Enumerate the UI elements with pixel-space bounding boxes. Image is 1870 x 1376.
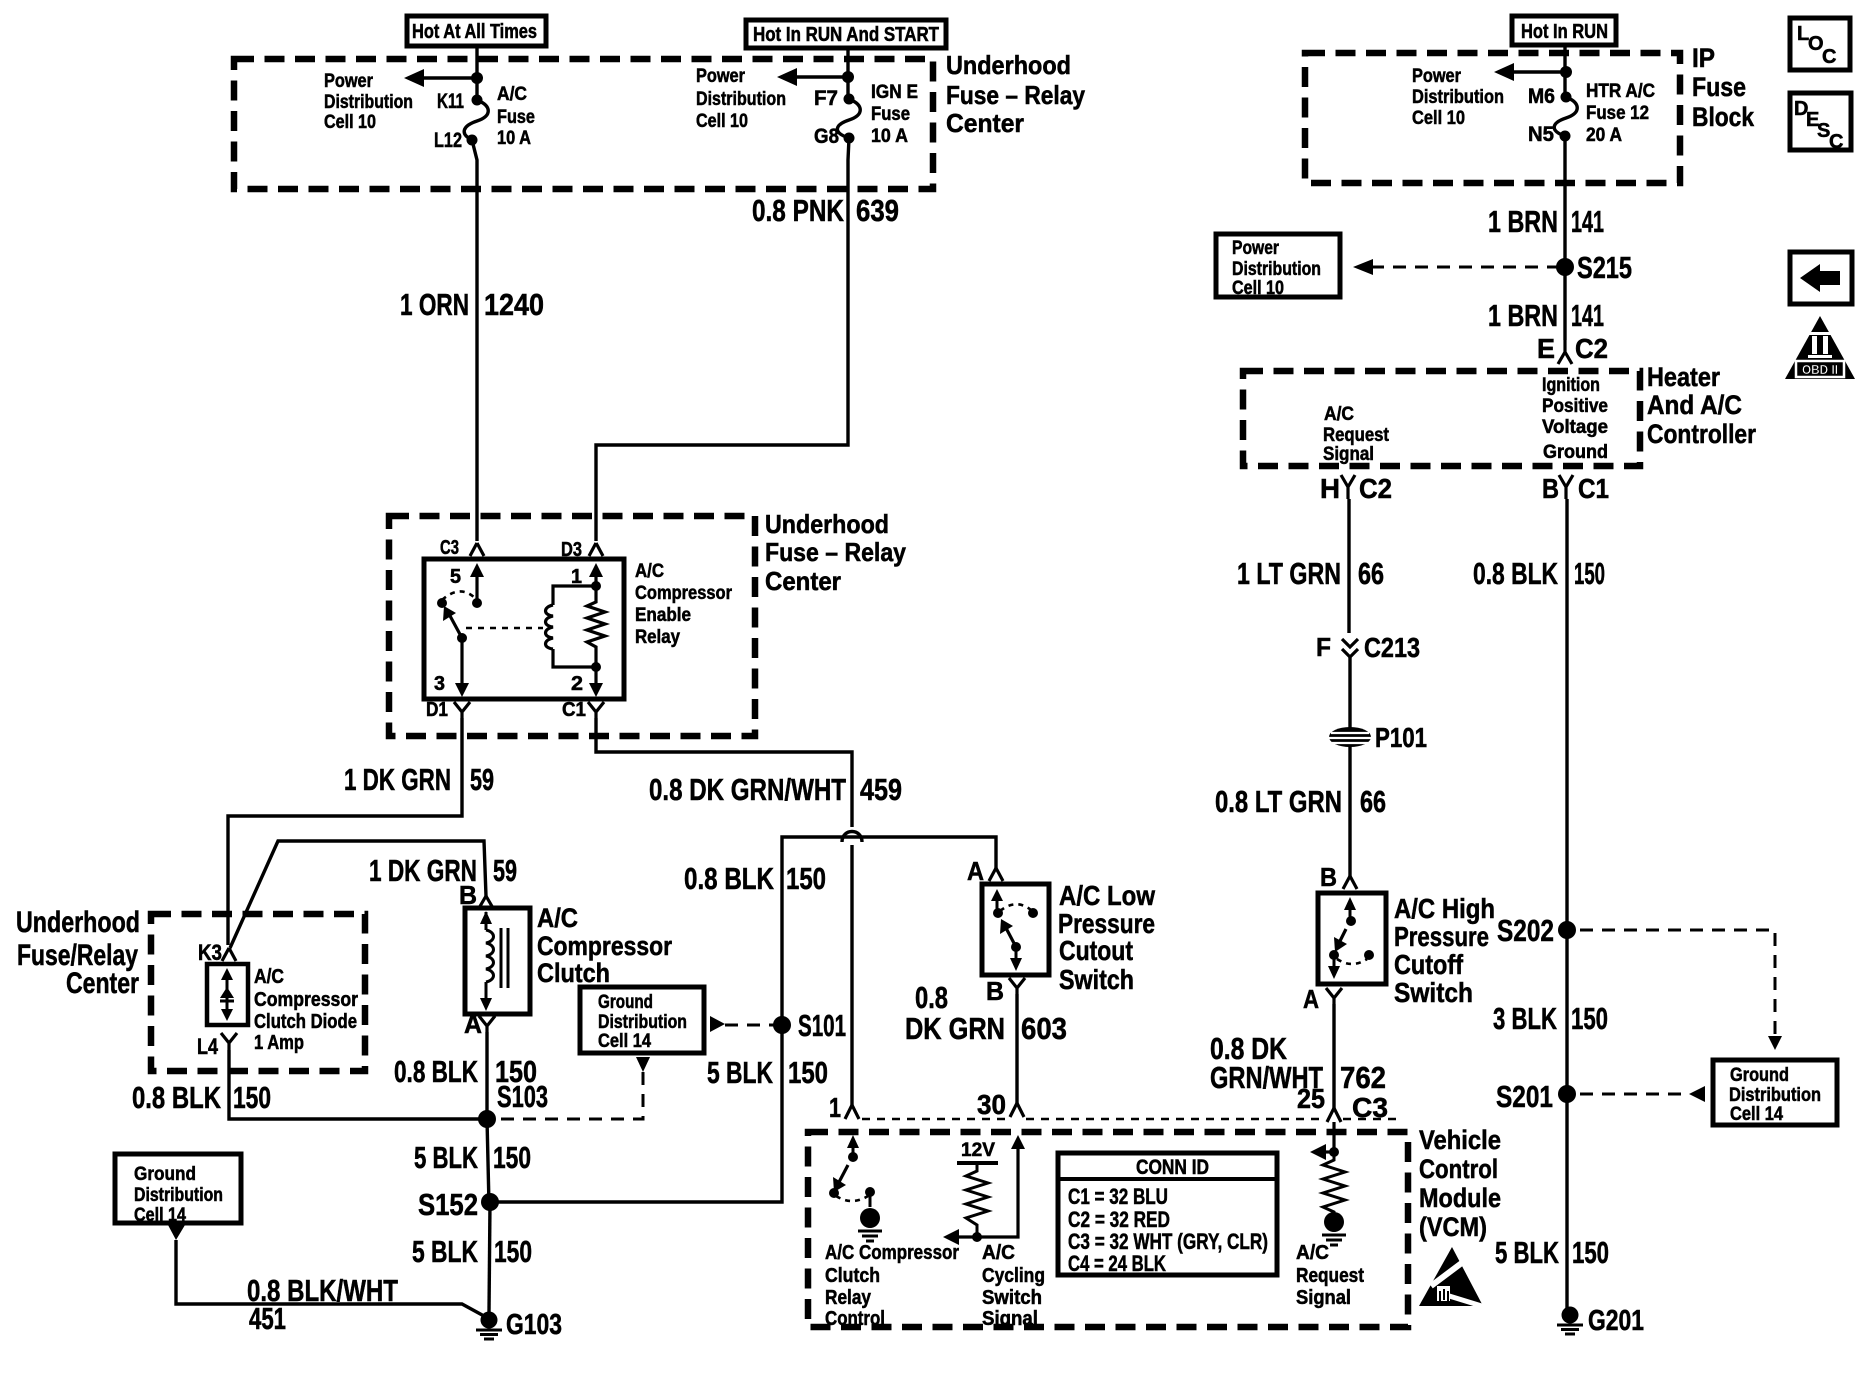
pin function label Ignition Positive Voltage / Ground (controller): [1542, 375, 1608, 463]
wire D1 down-left-down to K3: [228, 718, 462, 945]
svg-text:Center: Center: [66, 967, 139, 1000]
reference box Ground Distribution Cell 14 (mid): [580, 987, 704, 1053]
wire label 1 BRN 141 (below S215): [1488, 298, 1604, 333]
svg-text:150: 150: [1574, 556, 1605, 591]
svg-text:Clutch: Clutch: [825, 1265, 880, 1287]
svg-text:C3: C3: [1352, 1092, 1388, 1123]
svg-text:5 BLK: 5 BLK: [414, 1140, 478, 1175]
wire S215 down to connector E C2: [1563, 267, 1566, 340]
svg-text:Underhood: Underhood: [946, 50, 1071, 80]
reference label Power Distribution Cell 10 (IP fuse): [1412, 66, 1504, 129]
pin 1 arrow (coil +): [571, 563, 603, 588]
connector chevron D1 (relay): [426, 699, 470, 721]
svg-text:OBD II: OBD II: [1802, 362, 1838, 377]
wire ground branch from S101 riser to low pressure switch A: [782, 837, 996, 1025]
svg-text:Distribution: Distribution: [1232, 259, 1321, 280]
svg-text:3 BLK: 3 BLK: [1493, 1001, 1557, 1036]
svg-text:59: 59: [493, 853, 517, 888]
svg-text:Distribution: Distribution: [324, 92, 413, 113]
wire P101 down to high pressure switch B: [1348, 745, 1351, 876]
component label Underhood Fuse-Relay Center (relay): [765, 509, 906, 596]
svg-text:1 ORN: 1 ORN: [400, 287, 469, 322]
clutch coil with arrows and plates: [480, 911, 508, 1011]
node junction at IGN E fuse feed: [842, 71, 854, 83]
wire 0.8 BLK/WHT 451 from ground distribution to G103: [176, 1240, 484, 1316]
component label A/C Compressor Clutch: [537, 903, 672, 988]
svg-text:0.8 DK GRN/WHT: 0.8 DK GRN/WHT: [649, 772, 846, 807]
VCM comparator arrow (cycling switch signal): [943, 1229, 982, 1245]
op box A/C Compressor Clutch Diode: [207, 964, 248, 1025]
wire G8 down, left, down to relay D3: [596, 138, 849, 541]
relay coil branch node top: [591, 581, 601, 591]
pin 5 arrow (relay common contact): [450, 563, 484, 601]
wire label 5 BLK 150 (below S152): [412, 1234, 532, 1269]
icon box back arrow: [1790, 252, 1852, 304]
svg-text:G103: G103: [506, 1309, 562, 1341]
svg-text:Signal: Signal: [982, 1308, 1038, 1330]
pin 2 arrow down: [571, 667, 603, 697]
svg-text:IP: IP: [1692, 43, 1715, 73]
relay coil (inductor): [546, 586, 597, 667]
svg-text:Fuse – Relay: Fuse – Relay: [765, 537, 906, 567]
wire label 3 BLK 150: [1493, 1001, 1608, 1036]
svg-text:C1: C1: [562, 699, 586, 721]
wire L12 down to relay C3: [472, 140, 477, 541]
svg-text:Cutout: Cutout: [1059, 935, 1133, 966]
reference label Power Distribution Cell 10 (middle fuse): [696, 66, 786, 132]
connector chevron A (high pressure switch): [1303, 984, 1342, 1014]
svg-text:Voltage: Voltage: [1542, 417, 1608, 438]
svg-text:2: 2: [571, 673, 583, 695]
connector chevron pin 25 (VCM): [1327, 1108, 1341, 1122]
component label Underhood Fuse/Relay Center (bottom left): [16, 906, 140, 1000]
wire S101 down to S152 level: [490, 1025, 782, 1202]
node junction at HTR A/C fuse feed: [1560, 66, 1572, 78]
ground G103: [476, 1309, 562, 1341]
svg-text:C1: C1: [1578, 473, 1609, 504]
svg-text:Switch: Switch: [1059, 964, 1134, 995]
svg-text:3: 3: [434, 673, 445, 695]
svg-text:B: B: [1542, 473, 1559, 504]
svg-text:F7: F7: [814, 87, 838, 110]
svg-text:C: C: [1829, 131, 1843, 153]
grommet P101: [1329, 722, 1427, 753]
svg-text:S152: S152: [418, 1187, 478, 1222]
svg-text:762: 762: [1340, 1060, 1386, 1095]
connector E C2: [1537, 333, 1608, 364]
svg-text:And A/C: And A/C: [1647, 390, 1742, 420]
component label Heater And A/C Controller: [1647, 362, 1756, 449]
connector chevron pin 1 (VCM): [845, 1105, 859, 1119]
wire label 0.8 DK GRN/WHT 762: [1210, 1031, 1386, 1095]
svg-text:S215: S215: [1577, 250, 1632, 285]
svg-text:HTR A/C: HTR A/C: [1586, 81, 1655, 102]
svg-text:A: A: [1303, 984, 1319, 1014]
pin 3 arrow down: [434, 638, 469, 697]
svg-text:A/C High: A/C High: [1394, 893, 1495, 924]
svg-text:Cell 14: Cell 14: [1730, 1104, 1783, 1125]
svg-text:1: 1: [829, 1092, 841, 1123]
svg-text:A/C: A/C: [254, 966, 284, 988]
svg-text:Distribution: Distribution: [1412, 87, 1504, 108]
arrow from Ground Distribution box down: [168, 1225, 185, 1240]
svg-text:C: C: [1822, 46, 1836, 68]
svg-text:5 BLK: 5 BLK: [412, 1234, 478, 1269]
svg-text:Cell 10: Cell 10: [1232, 278, 1284, 299]
arrow to Power Distribution Cell 10 (left fuse): [404, 69, 477, 87]
svg-text:A/C: A/C: [1296, 1242, 1329, 1264]
connector chevron A (low pressure switch): [967, 856, 1003, 886]
svg-text:B: B: [986, 976, 1004, 1006]
value label HTR A/C Fuse 12 20 A: [1586, 81, 1655, 146]
svg-text:Distribution: Distribution: [696, 89, 786, 110]
svg-text:IGN E: IGN E: [871, 82, 918, 103]
VCM internal ground (clutch relay control): [858, 1208, 882, 1241]
wire label 0.8 BLK 150 (clutch ground): [394, 1054, 537, 1089]
svg-text:Heater: Heater: [1647, 362, 1720, 392]
svg-text:Switch: Switch: [982, 1287, 1042, 1309]
wire label 5 BLK 150 (S101 branch): [707, 1055, 828, 1090]
connector chevron A (clutch): [464, 1009, 495, 1039]
reference box Power Distribution Cell 10 (at S215): [1216, 234, 1340, 299]
wire C1 down and right to hop: [596, 718, 852, 1105]
wire H C2 down to connector C213: [1347, 499, 1350, 633]
svg-text:Distribution: Distribution: [1729, 1085, 1821, 1106]
svg-text:Ground: Ground: [1730, 1065, 1789, 1086]
svg-text:P101: P101: [1375, 722, 1427, 753]
svg-text:Signal: Signal: [1323, 444, 1374, 465]
svg-text:Request: Request: [1323, 425, 1390, 446]
svg-text:66: 66: [1360, 784, 1386, 819]
svg-text:S101: S101: [798, 1008, 846, 1043]
svg-text:L4: L4: [197, 1034, 219, 1059]
svg-text:0.8 BLK: 0.8 BLK: [1473, 556, 1558, 591]
svg-text:0.8 LT GRN: 0.8 LT GRN: [1215, 784, 1342, 819]
svg-text:S201: S201: [1496, 1079, 1553, 1114]
label box Hot In RUN And START: [746, 20, 946, 48]
op box A/C Compressor Enable Relay: [424, 559, 624, 699]
svg-text:Underhood: Underhood: [765, 509, 889, 539]
svg-text:CONN ID: CONN ID: [1136, 1156, 1209, 1179]
svg-text:Fuse: Fuse: [1692, 72, 1746, 102]
component label IP Fuse Block: [1692, 43, 1755, 132]
dashed box Underhood Fuse-Relay Center (top): [234, 59, 933, 189]
svg-text:Request: Request: [1296, 1265, 1364, 1287]
svg-text:Compressor: Compressor: [635, 583, 733, 604]
svg-text:Hot In RUN: Hot In RUN: [1521, 21, 1608, 43]
diode symbol with bidirectional arrows: [220, 968, 234, 1021]
svg-text:Power: Power: [324, 71, 374, 92]
value label A/C Fuse 10 A: [497, 84, 535, 149]
wire S152 down to G103: [489, 1202, 490, 1313]
fuse HTR A/C Fuse 12 20 A (M6/N5): [1554, 92, 1577, 142]
svg-text:S103: S103: [497, 1079, 548, 1114]
svg-text:C2: C2: [1575, 333, 1608, 364]
svg-text:Cell 10: Cell 10: [1412, 108, 1465, 129]
svg-text:Block: Block: [1692, 102, 1755, 132]
VCM pull-up resistor: [966, 1163, 988, 1237]
connector chevron B (high pressure switch): [1320, 862, 1357, 892]
wire label 0.8 LT GRN 66: [1215, 784, 1386, 819]
svg-text:150: 150: [233, 1080, 271, 1115]
op box A/C Compressor Clutch: [465, 908, 530, 1014]
VCM 12V rail bar: [957, 1161, 998, 1165]
wire from Hot In RUN down to fuse M6: [1563, 45, 1566, 97]
svg-text:Cutoff: Cutoff: [1394, 949, 1464, 980]
wire label 0.8 BLK 150 (controller ground): [1473, 556, 1605, 591]
component label A/C Compressor Enable Relay: [635, 561, 733, 648]
svg-text:0.8 BLK: 0.8 BLK: [684, 861, 774, 896]
svg-text:1 BRN: 1 BRN: [1488, 204, 1558, 239]
svg-text:G201: G201: [1588, 1305, 1644, 1337]
node S101: [773, 1008, 846, 1043]
wire label 1 ORN 1240: [400, 287, 544, 322]
wire label 0.8 BLK 150 (diode ground): [132, 1080, 271, 1115]
connector chevron B (clutch): [459, 880, 493, 910]
wire N5 down to S215: [1563, 136, 1566, 267]
node S201: [1496, 1079, 1576, 1114]
wire C213 down to P101: [1348, 657, 1351, 729]
svg-text:Relay: Relay: [635, 627, 680, 648]
VCM A/C request input node and arrow: [1310, 1122, 1339, 1160]
svg-text:(VCM): (VCM): [1419, 1212, 1487, 1242]
svg-text:A/C: A/C: [1324, 404, 1354, 425]
reference label Power Distribution Cell 10 (left fuse): [324, 71, 413, 133]
wire cycling switch signal up to pin 30: [977, 1135, 1025, 1237]
pin function label A/C Request Signal (VCM): [1296, 1242, 1364, 1309]
wire label 1 BRN 141 (above S215): [1488, 204, 1604, 239]
svg-text:A/C Compressor: A/C Compressor: [825, 1242, 959, 1264]
dashed box Vehicle Control Module (VCM): [808, 1132, 1408, 1327]
svg-text:59: 59: [470, 762, 494, 797]
svg-text:Cycling: Cycling: [982, 1265, 1045, 1287]
relay armature dot: [457, 633, 467, 643]
svg-text:150: 150: [1571, 1001, 1608, 1036]
svg-text:Center: Center: [946, 108, 1024, 138]
svg-text:Cell 14: Cell 14: [598, 1031, 651, 1052]
svg-text:150: 150: [493, 1140, 531, 1175]
svg-text:C213: C213: [1364, 632, 1420, 663]
svg-text:Ground: Ground: [1543, 442, 1608, 463]
dashed box Heater And A/C Controller: [1243, 371, 1640, 466]
svg-text:Fuse: Fuse: [871, 104, 910, 125]
svg-text:Module: Module: [1419, 1183, 1501, 1213]
svg-text:A/C: A/C: [537, 903, 578, 933]
svg-text:12V: 12V: [961, 1140, 995, 1161]
svg-text:E: E: [1537, 333, 1555, 364]
connector H C2: [1320, 473, 1392, 504]
wire S103 down to S152: [487, 1119, 489, 1205]
wire clutch A down to S103: [485, 1032, 488, 1119]
label box Hot In RUN: [1512, 16, 1616, 45]
svg-text:K11: K11: [437, 90, 464, 113]
wire label 0.8 DK GRN/WHT 459: [649, 772, 902, 807]
pin function label A/C Compressor Clutch Relay Control: [825, 1242, 959, 1330]
svg-text:Hot At All Times: Hot At All Times: [412, 21, 537, 43]
svg-text:Power: Power: [1232, 238, 1279, 259]
svg-text:Distribution: Distribution: [598, 1012, 687, 1033]
ground G201: [1557, 1305, 1644, 1337]
node S215: [1556, 250, 1632, 285]
op box A/C Low Pressure Cutout Switch: [982, 884, 1049, 975]
svg-text:F: F: [1316, 632, 1331, 662]
arrow to Power Distribution Cell 10 (IP fuse): [1494, 63, 1566, 81]
dashed reference wire S215 to Power Distribution: [1353, 259, 1558, 275]
svg-text:Controller: Controller: [1647, 419, 1756, 449]
relay switch dashed travel arc: [442, 591, 475, 600]
dashed box IP Fuse Block: [1305, 53, 1680, 183]
svg-text:GRN/WHT: GRN/WHT: [1210, 1060, 1323, 1095]
svg-text:0.8 PNK: 0.8 PNK: [752, 193, 844, 228]
wire label 0.8 BLK/WHT 451: [247, 1273, 398, 1336]
svg-text:A/C: A/C: [982, 1242, 1015, 1264]
arrow to Power Distribution Cell 10 (middle fuse): [777, 68, 848, 86]
svg-text:30: 30: [977, 1089, 1006, 1120]
svg-text:141: 141: [1571, 298, 1604, 333]
svg-text:Ground: Ground: [134, 1164, 196, 1185]
svg-text:Clutch Diode: Clutch Diode: [254, 1011, 357, 1033]
svg-text:66: 66: [1358, 556, 1384, 591]
value label IGN E Fuse 10 A: [871, 82, 918, 147]
svg-text:Control: Control: [1419, 1154, 1498, 1184]
svg-text:A/C: A/C: [635, 561, 664, 582]
component label A/C Low Pressure Cutout Switch: [1058, 880, 1155, 995]
svg-text:1 LT GRN: 1 LT GRN: [1237, 556, 1341, 591]
wire high pressure A down to VCM pin 25: [1332, 1004, 1335, 1108]
svg-text:5 BLK: 5 BLK: [1495, 1235, 1559, 1270]
connector B C1: [1542, 473, 1609, 504]
node S152: [418, 1187, 499, 1222]
svg-text:C1 = 32 BLU: C1 = 32 BLU: [1068, 1184, 1168, 1209]
svg-text:Positive: Positive: [1542, 396, 1608, 417]
wire label 0.8 PNK 639: [752, 193, 899, 228]
fuse A/C Fuse 10 A (K11/L12): [464, 95, 488, 146]
relay resistor (parallel with coil): [587, 586, 605, 667]
svg-text:Hot In RUN And START: Hot In RUN And START: [753, 24, 939, 46]
svg-text:Pressure: Pressure: [1394, 921, 1489, 952]
svg-text:150: 150: [1572, 1235, 1609, 1270]
svg-text:H: H: [1320, 473, 1340, 504]
svg-text:Ignition: Ignition: [1542, 375, 1600, 396]
component label A/C Compressor Clutch Diode 1 Amp: [254, 966, 358, 1054]
svg-text:L12: L12: [434, 129, 462, 152]
svg-text:S202: S202: [1497, 913, 1554, 948]
svg-text:Distribution: Distribution: [134, 1185, 223, 1206]
dashed reference wire Ground Distribution to S101: [710, 1016, 776, 1032]
svg-text:K3: K3: [198, 940, 222, 965]
svg-text:20 A: 20 A: [1586, 125, 1622, 146]
svg-text:C3: C3: [440, 537, 459, 559]
dashed reference wire S201 to Ground Distribution (right): [1580, 1086, 1705, 1102]
svg-text:150: 150: [786, 861, 826, 896]
svg-text:Cell 10: Cell 10: [324, 112, 376, 133]
connector chevron C1 (relay): [562, 699, 604, 721]
svg-text:150: 150: [494, 1234, 532, 1269]
relay switch pivot dot: [437, 598, 447, 608]
icon OBD II triangle: [1785, 316, 1855, 379]
svg-text:Cell 10: Cell 10: [696, 111, 748, 132]
svg-text:Ground: Ground: [598, 992, 653, 1013]
pin function label A/C Cycling Switch Signal: [982, 1242, 1045, 1330]
svg-text:D1: D1: [426, 699, 448, 721]
svg-text:1 Amp: 1 Amp: [254, 1032, 304, 1054]
svg-text:Fuse – Relay: Fuse – Relay: [946, 80, 1085, 110]
svg-text:Vehicle: Vehicle: [1419, 1125, 1501, 1155]
svg-text:5: 5: [450, 566, 461, 588]
icon box DESC: [1790, 93, 1851, 153]
svg-text:A: A: [464, 1009, 482, 1039]
svg-text:Fuse: Fuse: [497, 107, 535, 128]
connector chevron C3 (relay): [440, 537, 484, 559]
component label A/C High Pressure Cutoff Switch: [1394, 893, 1495, 1008]
svg-text:10 A: 10 A: [871, 126, 908, 147]
high pressure switch contacts: [1328, 897, 1374, 979]
component label Underhood Fuse-Relay Center (top): [946, 50, 1085, 138]
low pressure switch contacts: [991, 889, 1038, 971]
connector chevron L4: [197, 1033, 237, 1059]
svg-text:639: 639: [856, 193, 899, 228]
wire label 5 BLK 150 (below S103): [414, 1140, 531, 1175]
svg-text:5 BLK: 5 BLK: [707, 1055, 773, 1090]
wire label 1 DK GRN 59 (clutch B): [369, 853, 517, 888]
connector F C213 (double chevron): [1316, 632, 1420, 663]
svg-text:Power: Power: [696, 66, 746, 87]
svg-text:C2: C2: [1359, 473, 1392, 504]
connector chevron K3: [198, 940, 236, 965]
reference box Ground Distribution Cell 14 (right): [1713, 1060, 1837, 1125]
svg-text:DK GRN: DK GRN: [905, 1011, 1005, 1046]
op box A/C High Pressure Cutoff Switch: [1318, 893, 1386, 984]
svg-text:10 A: 10 A: [497, 128, 531, 149]
svg-text:N5: N5: [1528, 123, 1554, 146]
svg-text:Signal: Signal: [1296, 1287, 1351, 1309]
connector chevron D3 (relay): [561, 539, 603, 561]
svg-text:603: 603: [1021, 1011, 1067, 1046]
dashed reference wire S202 to Ground Distribution (right): [1580, 930, 1782, 1050]
node junction at A/C fuse feed: [471, 72, 483, 84]
reference box Ground Distribution Cell 14 (bottom left): [115, 1154, 241, 1226]
wire from Hot At All Times down to fuse K11: [475, 46, 478, 97]
wire L4 down and right to S103: [229, 1050, 483, 1119]
svg-text:Enable: Enable: [635, 605, 691, 626]
svg-text:A/C: A/C: [497, 84, 527, 105]
wire label 1 LT GRN 66: [1237, 556, 1384, 591]
svg-text:Compressor: Compressor: [537, 931, 672, 961]
icon box LOC: [1790, 18, 1850, 70]
svg-text:0.8 BLK: 0.8 BLK: [132, 1080, 221, 1115]
wire low pressure B down to VCM pin 30: [1015, 994, 1018, 1103]
dashed box Underhood Fuse/Relay Center (diode): [151, 914, 365, 1071]
svg-text:M6: M6: [1528, 85, 1555, 108]
svg-text:451: 451: [249, 1301, 286, 1336]
connector chevron pin 30 (VCM): [1010, 1103, 1024, 1117]
wire label 5 BLK 150 (right column): [1495, 1235, 1609, 1270]
svg-text:G8: G8: [814, 125, 839, 148]
VCM request pull resistor: [1323, 1152, 1345, 1214]
svg-text:0.8 BLK: 0.8 BLK: [394, 1054, 478, 1089]
svg-text:Relay: Relay: [825, 1287, 872, 1309]
svg-text:Center: Center: [765, 566, 841, 596]
dashed reference wire Ground Distribution to S103: [496, 1057, 650, 1119]
VCM internal ground (request signal): [1322, 1212, 1346, 1245]
fuse IGN E Fuse 10 A (F7/G8): [837, 94, 860, 144]
wire label 1 DK GRN 59 (relay D1): [344, 762, 494, 797]
svg-text:Clutch: Clutch: [537, 958, 610, 988]
dashed box Underhood Fuse-Relay Center (relay): [389, 516, 755, 736]
node S202: [1497, 913, 1576, 948]
svg-text:1240: 1240: [484, 287, 544, 322]
wire from Hot In RUN And START down to fuse F7: [846, 48, 849, 100]
